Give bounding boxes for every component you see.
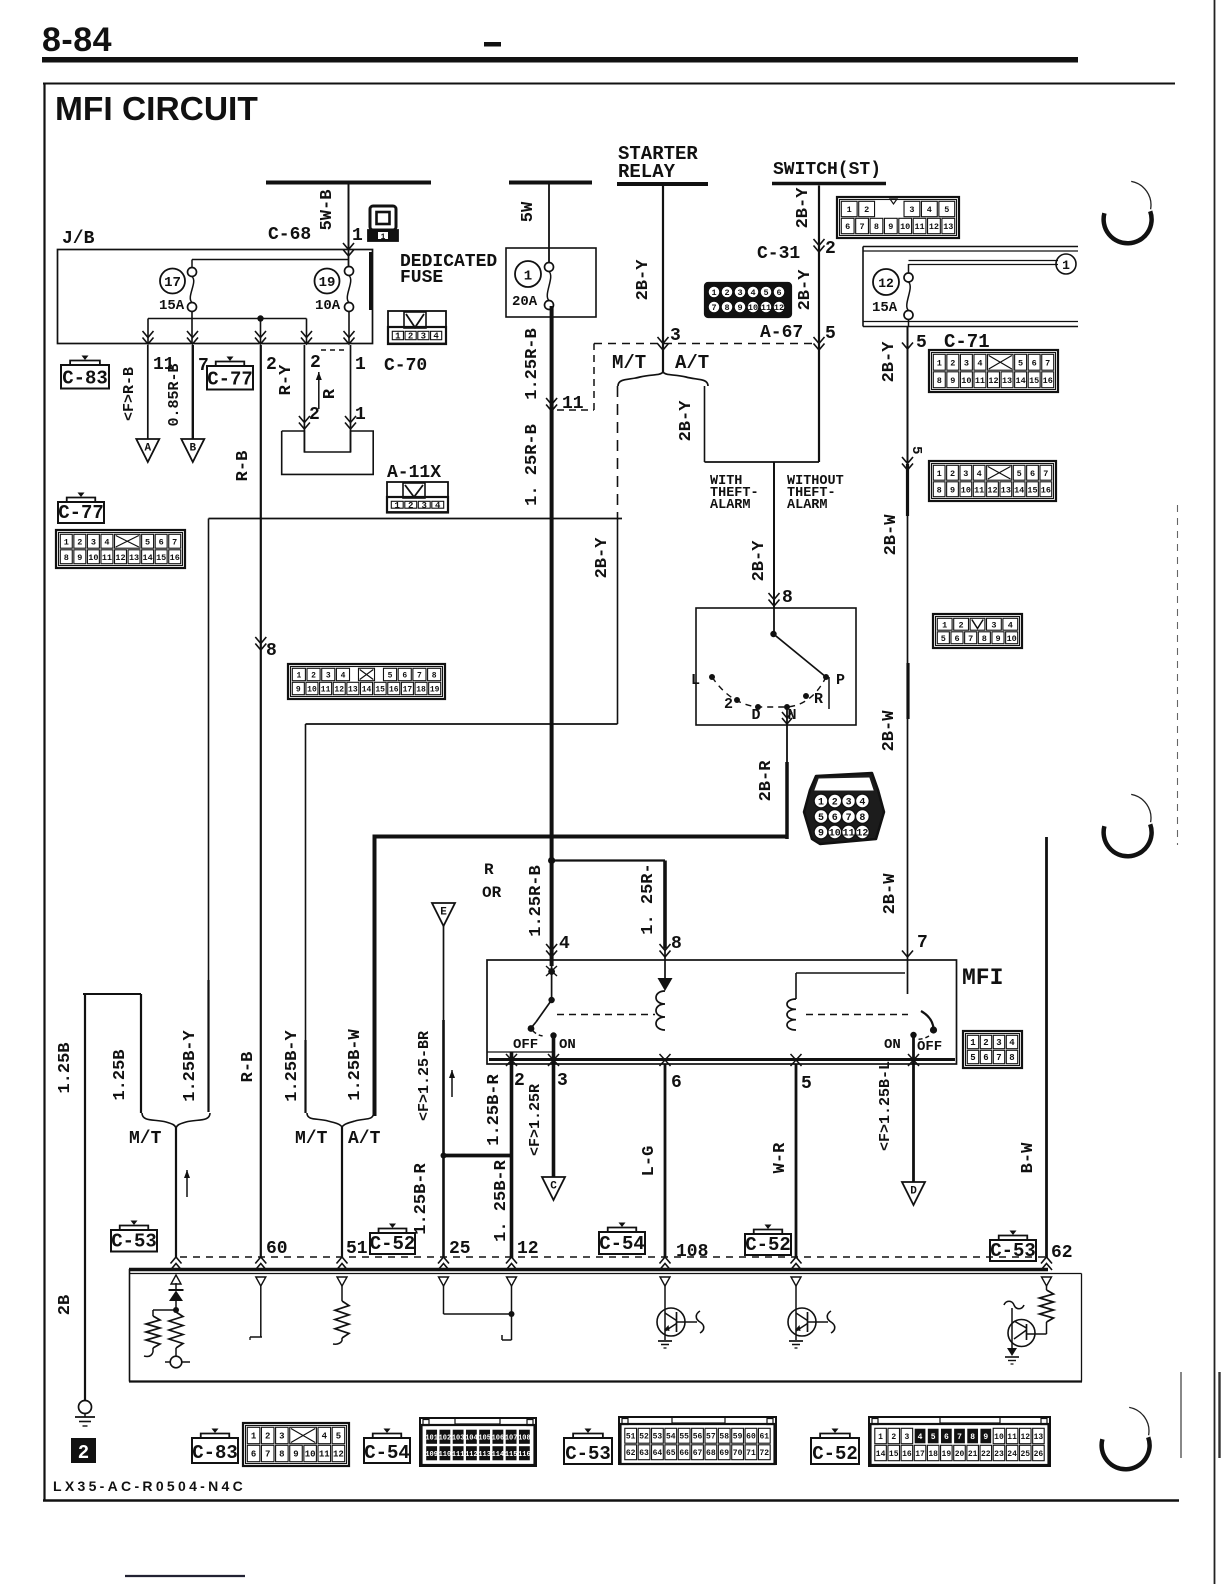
fuse 1 symbol xyxy=(545,263,554,272)
svg-text:25: 25 xyxy=(449,1239,471,1259)
wire R-B long xyxy=(260,345,262,1258)
strap 1.25B-R xyxy=(442,1154,512,1158)
svg-text:1.25B: 1.25B xyxy=(111,1049,130,1100)
svg-text:16: 16 xyxy=(1041,485,1051,495)
footer underline artifact xyxy=(125,1575,245,1577)
svg-text:11: 11 xyxy=(974,485,984,495)
svg-text:RELAY: RELAY xyxy=(618,161,676,183)
main frame left border xyxy=(43,83,45,1501)
svg-text:16: 16 xyxy=(1043,376,1053,386)
svg-text:M/T: M/T xyxy=(129,1129,162,1149)
wire 1.25B-R pin2 xyxy=(510,1064,514,1258)
chevron into J/B on 5W-B xyxy=(343,243,354,256)
svg-text:69: 69 xyxy=(719,1449,729,1458)
svg-text:8: 8 xyxy=(266,641,277,661)
svg-text:109: 109 xyxy=(425,1451,438,1459)
svg-text:4: 4 xyxy=(341,671,346,680)
svg-text:5: 5 xyxy=(825,324,836,344)
wire 1.25R-B upper xyxy=(550,306,554,966)
svg-text:10: 10 xyxy=(88,553,98,563)
svg-text:61: 61 xyxy=(760,1433,770,1442)
svg-text:1: 1 xyxy=(847,205,852,215)
svg-text:C-53: C-53 xyxy=(565,1443,611,1465)
svg-text:51: 51 xyxy=(346,1239,368,1259)
svg-text:16: 16 xyxy=(389,685,399,694)
power rail 2 xyxy=(509,181,592,185)
pin5 crossing mark xyxy=(791,1054,802,1066)
svg-text:5W-B: 5W-B xyxy=(318,190,337,231)
svg-text:5: 5 xyxy=(145,537,150,547)
svg-text:13: 13 xyxy=(1001,485,1011,495)
svg-text:5: 5 xyxy=(1018,358,1023,368)
dashed line A-67 xyxy=(594,343,819,345)
svg-text:MFI: MFI xyxy=(962,965,1003,991)
svg-text:13: 13 xyxy=(1034,1433,1044,1442)
svg-text:1: 1 xyxy=(355,355,366,375)
svg-text:15: 15 xyxy=(1029,376,1039,386)
svg-text:8: 8 xyxy=(874,222,879,232)
svg-text:3: 3 xyxy=(964,358,969,368)
svg-text:15: 15 xyxy=(375,685,385,694)
svg-text:2B-Y: 2B-Y xyxy=(634,259,653,301)
svg-text:<F>1.25R: <F>1.25R xyxy=(527,1084,544,1156)
svg-text:J/B: J/B xyxy=(62,229,95,249)
svg-text:20: 20 xyxy=(955,1450,965,1459)
svg-text:5: 5 xyxy=(908,446,924,454)
svg-text:M/T: M/T xyxy=(295,1129,328,1149)
svg-text:106: 106 xyxy=(492,1434,505,1442)
svg-text:24: 24 xyxy=(1007,1450,1017,1459)
svg-text:9: 9 xyxy=(950,376,955,386)
svg-text:6: 6 xyxy=(983,1053,988,1063)
connector oval 12-pin xyxy=(804,773,884,844)
svg-text:13: 13 xyxy=(129,553,139,563)
svg-text:1: 1 xyxy=(381,233,386,242)
svg-text:108: 108 xyxy=(676,1242,708,1262)
ECU wire 60 stub xyxy=(260,1286,262,1337)
svg-text:7: 7 xyxy=(996,1053,1001,1063)
svg-text:2: 2 xyxy=(266,355,277,375)
svg-text:7: 7 xyxy=(1045,358,1050,368)
svg-text:SWITCH(ST): SWITCH(ST) xyxy=(773,160,881,180)
binder hole middle xyxy=(1104,824,1152,856)
inhibitor N output wire xyxy=(786,707,788,725)
inhibitor contact 2 xyxy=(734,697,740,703)
relay2 dashed link xyxy=(806,1014,908,1016)
svg-text:C-70: C-70 xyxy=(384,356,427,376)
wire 5W xyxy=(548,184,550,262)
svg-text:OFF: OFF xyxy=(917,1039,942,1055)
wire merged group1 xyxy=(175,1128,177,1258)
svg-text:FUSE: FUSE xyxy=(400,268,443,288)
svg-text:7: 7 xyxy=(957,1433,962,1442)
svg-text:2: 2 xyxy=(514,1071,525,1091)
svg-text:C-54: C-54 xyxy=(599,1233,645,1255)
connector A-11X icon xyxy=(387,482,448,512)
svg-text:6: 6 xyxy=(251,1450,256,1460)
svg-text:58: 58 xyxy=(719,1433,729,1442)
svg-text:1: 1 xyxy=(524,269,532,285)
svg-text:4: 4 xyxy=(433,332,439,342)
svg-text:6: 6 xyxy=(944,1433,949,1442)
connector C-68 icon xyxy=(370,206,396,230)
svg-text:2: 2 xyxy=(983,1038,988,1048)
svg-text:12: 12 xyxy=(333,1450,344,1460)
relay1 coil xyxy=(656,991,665,1030)
svg-text:19: 19 xyxy=(942,1450,952,1459)
svg-text:108: 108 xyxy=(518,1434,531,1442)
inhibitor contact D xyxy=(755,704,761,710)
svg-text:D: D xyxy=(751,707,760,724)
ECU box right xyxy=(1081,1274,1083,1382)
relay1 off strap xyxy=(487,1051,552,1053)
svg-text:2: 2 xyxy=(724,696,733,713)
page number 2 block xyxy=(71,1438,96,1463)
relay1 crossing dot xyxy=(548,968,555,975)
J/B drop wires xyxy=(147,319,149,344)
svg-text:1.25B-Y: 1.25B-Y xyxy=(283,1030,302,1102)
heavy wire 1.25B-W vertical xyxy=(373,835,377,1117)
inhibitor contact R xyxy=(803,693,809,699)
svg-text:54: 54 xyxy=(666,1433,676,1442)
svg-text:8-84: 8-84 xyxy=(42,21,112,59)
svg-text:13: 13 xyxy=(1002,376,1012,386)
svg-text:12: 12 xyxy=(856,829,868,840)
svg-text:66: 66 xyxy=(679,1449,689,1458)
svg-text:1: 1 xyxy=(395,501,401,511)
fuse 17 label 15A xyxy=(160,269,185,294)
svg-text:8: 8 xyxy=(859,813,865,824)
inhibitor contact L xyxy=(709,674,715,680)
ECU box top thin xyxy=(129,1273,1082,1275)
svg-text:1.25B-R: 1.25B-R xyxy=(485,1074,504,1146)
svg-text:11: 11 xyxy=(975,376,985,386)
chevron 11 on 1.25R-B xyxy=(546,398,557,411)
svg-text:10A: 10A xyxy=(315,298,341,314)
svg-text:15A: 15A xyxy=(159,298,185,314)
svg-text:1: 1 xyxy=(970,1038,976,1048)
header underline xyxy=(42,57,1078,63)
svg-text:8: 8 xyxy=(970,1433,975,1442)
svg-text:1: 1 xyxy=(64,537,69,547)
wire W-R xyxy=(795,1064,798,1258)
svg-text:C-53: C-53 xyxy=(990,1240,1036,1262)
svg-text:D: D xyxy=(910,1186,917,1198)
svg-text:2: 2 xyxy=(310,353,321,373)
svg-text:5: 5 xyxy=(388,671,393,680)
relay1 dashed link xyxy=(557,1014,655,1016)
svg-text:W-R: W-R xyxy=(771,1142,790,1173)
svg-text:4: 4 xyxy=(1008,620,1013,630)
svg-text:2B-Y: 2B-Y xyxy=(593,537,612,579)
chevron 5 switch xyxy=(814,337,825,350)
wire 2B-R down xyxy=(786,725,788,762)
ECU resistor parallel xyxy=(153,1309,176,1311)
svg-text:72: 72 xyxy=(760,1449,770,1458)
svg-text:68: 68 xyxy=(706,1449,716,1458)
svg-text:OFF: OFF xyxy=(513,1037,538,1053)
svg-text:9: 9 xyxy=(293,1450,298,1460)
svg-text:5W: 5W xyxy=(519,201,538,222)
svg-text:2: 2 xyxy=(78,1442,89,1464)
label C-83 bottom xyxy=(192,1438,238,1463)
svg-text:2: 2 xyxy=(408,332,413,342)
connector C-83 bottom pinout xyxy=(243,1423,349,1466)
chevron 8 on R-B xyxy=(255,637,266,650)
svg-text:9: 9 xyxy=(737,303,742,313)
wire F R-B to ground A xyxy=(147,345,149,439)
svg-text:P: P xyxy=(836,672,845,689)
fuse 12 label 15A xyxy=(873,269,899,295)
svg-text:4: 4 xyxy=(559,934,570,954)
svg-text:6: 6 xyxy=(1032,358,1037,368)
relay1 pivot dot xyxy=(548,997,554,1003)
chevron 2 C-31 xyxy=(814,239,825,252)
label C-53 rail1 xyxy=(111,1230,157,1252)
svg-text:B-W: B-W xyxy=(1019,1142,1038,1173)
svg-text:2: 2 xyxy=(77,537,82,547)
J/B box xyxy=(58,250,373,344)
svg-text:12: 12 xyxy=(878,276,894,291)
svg-text:A-67: A-67 xyxy=(760,323,803,343)
inhibitor dashed arc xyxy=(712,677,826,707)
svg-text:L: L xyxy=(691,672,700,689)
svg-text:65: 65 xyxy=(666,1449,676,1458)
svg-text:12: 12 xyxy=(1020,1433,1030,1442)
svg-text:2: 2 xyxy=(959,620,964,630)
svg-text:C-83: C-83 xyxy=(62,368,108,390)
svg-text:13: 13 xyxy=(348,685,358,694)
svg-text:C-83: C-83 xyxy=(192,1442,238,1464)
binder hole top xyxy=(1104,211,1152,243)
svg-text:17: 17 xyxy=(164,275,181,291)
wire 5W-B xyxy=(348,184,350,250)
svg-text:16: 16 xyxy=(902,1450,912,1459)
MFI relay box bottom heavy xyxy=(489,1058,955,1061)
C-71 feed box xyxy=(863,246,1078,248)
svg-text:2: 2 xyxy=(864,205,869,215)
svg-text:C-52: C-52 xyxy=(370,1233,416,1255)
binder hole bottom xyxy=(1102,1437,1150,1469)
svg-text:10: 10 xyxy=(748,303,758,313)
svg-text:60: 60 xyxy=(266,1239,288,1259)
svg-text:1: 1 xyxy=(878,1433,883,1442)
relay1 output heavy xyxy=(552,1036,556,1064)
ground symbol xyxy=(79,1401,92,1414)
wire R-Y xyxy=(303,345,305,452)
svg-text:18: 18 xyxy=(928,1450,938,1459)
chevron 5 below C-71 box xyxy=(902,343,913,350)
fuse 12 symbol xyxy=(908,264,910,273)
double chevron mid 2B-W xyxy=(902,457,913,470)
svg-text:51: 51 xyxy=(626,1433,636,1442)
svg-text:10: 10 xyxy=(961,376,971,386)
connector 19-pin pinout xyxy=(288,664,445,699)
connector C-71 pinout xyxy=(929,350,1058,392)
wire merged group2 xyxy=(341,1127,343,1258)
svg-text:1.25R-B: 1.25R-B xyxy=(523,328,542,399)
svg-text:2B: 2B xyxy=(56,1295,75,1315)
svg-text:19: 19 xyxy=(319,275,336,291)
svg-text:C-31: C-31 xyxy=(757,244,800,264)
svg-text:R: R xyxy=(321,388,340,399)
svg-text:14: 14 xyxy=(876,1450,886,1459)
theft merge horizontal xyxy=(705,461,820,463)
connector A-67 pinout xyxy=(705,283,791,317)
wire F 1.25B-L xyxy=(912,1035,915,1182)
svg-text:59: 59 xyxy=(733,1433,743,1442)
svg-text:7: 7 xyxy=(1043,469,1048,479)
svg-text:12: 12 xyxy=(334,685,344,694)
relay1 crossing mark xyxy=(546,966,557,976)
svg-text:1: 1 xyxy=(937,469,942,479)
svg-text:1. 25B-R: 1. 25B-R xyxy=(492,1159,511,1241)
triangle ground A xyxy=(136,439,159,462)
svg-text:104: 104 xyxy=(465,1434,478,1442)
svg-text:9: 9 xyxy=(983,1433,988,1442)
svg-text:2: 2 xyxy=(950,469,955,479)
svg-text:8: 8 xyxy=(982,634,987,644)
inhibitor contact N xyxy=(784,704,790,710)
svg-text:10: 10 xyxy=(307,685,317,694)
svg-text:20A: 20A xyxy=(512,294,538,310)
chevron 3 starter xyxy=(658,337,669,350)
svg-text:63: 63 xyxy=(639,1449,649,1458)
svg-text:101: 101 xyxy=(425,1434,438,1442)
svg-text:R-Y: R-Y xyxy=(277,364,296,395)
connector C-52 bottom pinout xyxy=(869,1417,1050,1466)
svg-text:B: B xyxy=(189,443,196,455)
label C-52 rail xyxy=(370,1233,415,1254)
svg-text:1: 1 xyxy=(251,1432,257,1442)
svg-text:67: 67 xyxy=(693,1449,703,1458)
brace M/T group1 xyxy=(142,1113,210,1128)
svg-text:5: 5 xyxy=(336,1432,341,1442)
svg-text:22: 22 xyxy=(981,1450,991,1459)
J/B bottom pin chevrons xyxy=(143,331,154,344)
svg-text:1: 1 xyxy=(818,798,824,809)
svg-text:9: 9 xyxy=(888,222,893,232)
svg-text:A/T: A/T xyxy=(675,352,709,374)
chevron 1 lower R xyxy=(345,416,356,429)
svg-text:5: 5 xyxy=(944,205,949,215)
svg-text:A/T: A/T xyxy=(348,1129,381,1149)
svg-text:C-54: C-54 xyxy=(364,1442,410,1464)
svg-text:8: 8 xyxy=(279,1450,284,1460)
svg-text:6: 6 xyxy=(954,634,959,644)
wire M/T lower horizontal xyxy=(306,723,618,725)
relay1 contact wire xyxy=(551,966,553,999)
svg-text:11: 11 xyxy=(843,829,855,840)
svg-text:8: 8 xyxy=(782,588,793,608)
svg-text:10: 10 xyxy=(829,829,841,840)
wire 0.85R-B to ground B xyxy=(192,345,194,439)
ECU resistor B-W xyxy=(1046,1286,1048,1290)
junction dot 1.25R-B xyxy=(548,857,555,864)
label C-54 rail xyxy=(599,1232,645,1254)
svg-text:2B-Y: 2B-Y xyxy=(750,540,769,582)
svg-text:1: 1 xyxy=(1062,258,1070,273)
svg-text:1: 1 xyxy=(395,332,401,342)
label C-77 box lower xyxy=(58,502,104,523)
svg-text:3: 3 xyxy=(326,671,331,680)
svg-text:11: 11 xyxy=(319,1450,330,1460)
connector C-77 pinout xyxy=(56,530,185,568)
terminal circle 1 xyxy=(1056,254,1076,274)
svg-text:14: 14 xyxy=(1014,485,1024,495)
svg-text:110: 110 xyxy=(439,1451,452,1459)
direction arrow on E wire xyxy=(451,1070,453,1097)
svg-text:62: 62 xyxy=(1051,1243,1073,1263)
svg-text:7: 7 xyxy=(417,671,422,680)
svg-text:7: 7 xyxy=(172,537,177,547)
svg-text:6: 6 xyxy=(159,537,164,547)
svg-text:C-53: C-53 xyxy=(111,1231,157,1253)
svg-text:17: 17 xyxy=(915,1450,925,1459)
direction arrow group1 xyxy=(186,1170,188,1197)
svg-text:<F>R-B: <F>R-B xyxy=(121,367,138,421)
svg-text:5: 5 xyxy=(1017,469,1022,479)
svg-text:4: 4 xyxy=(918,1433,923,1442)
svg-text:4: 4 xyxy=(927,205,932,215)
svg-text:1.25B-Y: 1.25B-Y xyxy=(181,1030,200,1102)
wire F 1.25R pin3 xyxy=(552,1063,556,1177)
svg-text:102: 102 xyxy=(439,1434,452,1442)
svg-text:2: 2 xyxy=(825,239,836,259)
svg-text:6: 6 xyxy=(402,671,407,680)
chevron rail E wire xyxy=(438,1257,449,1270)
heavy wire 2B-R horizontal xyxy=(375,835,787,839)
svg-text:8: 8 xyxy=(64,553,69,563)
svg-text:4: 4 xyxy=(750,288,755,298)
svg-text:114: 114 xyxy=(492,1451,505,1459)
svg-text:60: 60 xyxy=(746,1433,756,1442)
svg-text:2B-W: 2B-W xyxy=(881,873,900,915)
dedicated fuse box xyxy=(506,248,596,317)
svg-text:<F>1.25-BR: <F>1.25-BR xyxy=(416,1031,433,1121)
svg-text:7: 7 xyxy=(846,813,852,824)
svg-text:3: 3 xyxy=(737,288,742,298)
svg-text:11: 11 xyxy=(914,222,924,232)
svg-text:MFI CIRCUIT: MFI CIRCUIT xyxy=(55,91,258,128)
svg-text:6: 6 xyxy=(671,1073,682,1093)
dashed jumper near pin 1 xyxy=(321,349,347,351)
wire R xyxy=(350,345,352,452)
svg-text:52: 52 xyxy=(639,1433,649,1442)
relay2 ON dot xyxy=(910,1032,916,1038)
fuse 19 symbol xyxy=(345,267,354,276)
svg-text:R-B: R-B xyxy=(234,451,253,482)
J/B inner bus bottom xyxy=(148,318,307,320)
switch st bar xyxy=(772,182,886,186)
wire M/T horizontal long xyxy=(209,518,623,520)
main frame top border xyxy=(43,83,1175,85)
svg-text:ON: ON xyxy=(884,1037,901,1053)
svg-text:6: 6 xyxy=(832,813,838,824)
relay1 arm xyxy=(536,1000,552,1022)
svg-text:9: 9 xyxy=(995,634,1000,644)
wire 1.25B-Y mid vertical xyxy=(305,724,307,1040)
fuse 17 symbol xyxy=(188,268,197,277)
svg-text:7: 7 xyxy=(265,1450,270,1460)
ECU transistor B-W xyxy=(1027,1333,1047,1335)
svg-text:C-77: C-77 xyxy=(58,502,104,524)
wire M/T branch dashed xyxy=(617,386,619,520)
svg-text:C-52: C-52 xyxy=(812,1443,858,1465)
svg-text:R-B: R-B xyxy=(239,1052,258,1083)
wire 2B-W long xyxy=(907,326,909,464)
ECU box left xyxy=(129,1269,131,1382)
